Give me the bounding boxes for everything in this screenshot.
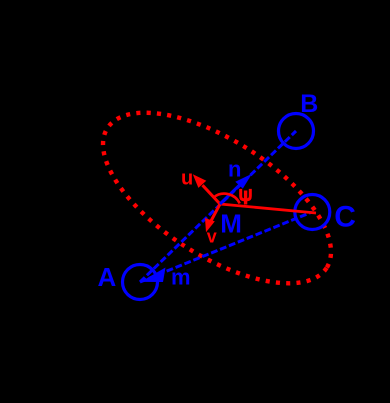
node B circle: [279, 114, 314, 149]
label psi (drawn): [241, 189, 251, 205]
svg-text:C: C: [334, 201, 356, 234]
wire: dashed line A to C: [140, 212, 312, 282]
wire: dashed line A to B: [140, 131, 296, 282]
angle arc psi: [214, 194, 240, 204]
node A circle: [123, 265, 158, 300]
svg-text:v: v: [207, 227, 217, 247]
orbit ellipse (dotted red): [76, 79, 358, 317]
vector u (red arrow up-left): [193, 174, 220, 204]
svg-text:A: A: [98, 262, 117, 292]
svg-text:n: n: [228, 157, 241, 182]
vector m (blue arrowhead into A along AC): [141, 268, 166, 283]
node C circle: [295, 195, 330, 230]
vector n (blue arrow up-right along AB): [220, 174, 252, 204]
svg-text:M: M: [220, 209, 242, 239]
vector v (red arrow down): [205, 204, 220, 232]
svg-text:B: B: [300, 90, 318, 118]
svg-text:u: u: [181, 168, 193, 190]
wire: red line M to C: [220, 204, 316, 213]
svg-text:m: m: [171, 264, 191, 289]
